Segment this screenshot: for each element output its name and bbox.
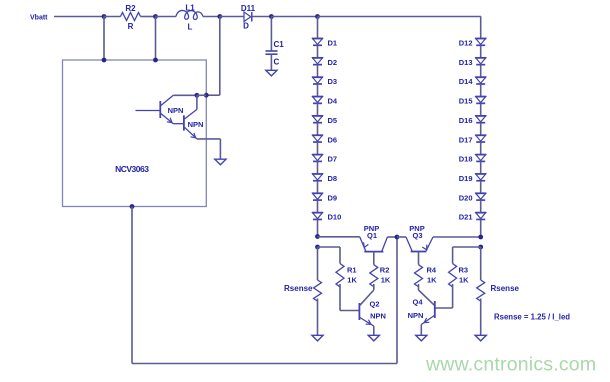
ground Q4 (416, 335, 427, 341)
LED D15 (459, 97, 486, 106)
LED D9 (312, 193, 337, 202)
wire R2 node down to IC (155, 17, 157, 61)
svg-text:D1: D1 (328, 39, 338, 48)
junction C1 node (269, 14, 274, 19)
wire (480, 45, 482, 58)
wire common node to Q3 collector (397, 236, 406, 238)
LED D12 (459, 39, 486, 48)
junction left node B (315, 245, 320, 250)
pin SWC dot (204, 93, 209, 98)
wire T2 collector up (196, 95, 198, 109)
svg-text:C: C (274, 58, 280, 67)
wire (317, 45, 319, 58)
wire (317, 65, 319, 78)
wire feedback bottom (131, 207, 133, 364)
wire L1 to switch node (203, 16, 220, 18)
wire (317, 84, 319, 97)
wire (480, 84, 482, 97)
LED D4 (312, 97, 338, 106)
transistor Q1 PNP (360, 224, 388, 252)
LED D8 (312, 174, 337, 183)
svg-text:NCV3063: NCV3063 (115, 164, 149, 174)
svg-text:D18: D18 (459, 155, 473, 164)
junction right node B (478, 245, 483, 250)
wire node A to Q1 emitter (318, 236, 360, 238)
junction common feedback node (395, 235, 400, 240)
wire D11 to C1 node (252, 16, 272, 18)
resistor Rsense left (284, 247, 321, 335)
svg-text:R4: R4 (427, 266, 437, 275)
wire (480, 200, 482, 213)
wire R1 to Q2 base (339, 284, 341, 311)
svg-text:D12: D12 (459, 39, 473, 48)
svg-text:L: L (188, 23, 193, 32)
wire switch node down (219, 17, 221, 96)
transistor internal NPN T1 (136, 95, 184, 124)
LED D10 (312, 213, 341, 222)
wire (480, 17, 482, 39)
svg-text:L1: L1 (185, 4, 195, 13)
resistor Rsense right (477, 247, 520, 335)
LED D21 (459, 213, 486, 222)
svg-text:D11: D11 (241, 4, 256, 13)
svg-text:1K: 1K (427, 276, 437, 285)
svg-text:D14: D14 (459, 77, 474, 86)
LED D7 (312, 155, 337, 164)
svg-text:NPN: NPN (188, 120, 204, 129)
wire node B to R1 (318, 246, 341, 248)
wire collectors node to SWC pin (197, 94, 206, 96)
LED D1 (312, 39, 337, 48)
svg-text:NPN: NPN (408, 311, 424, 320)
wire R2 to Q2 collector (373, 284, 375, 290)
wire Q3 emitter to right sense node (433, 236, 481, 238)
svg-text:R3: R3 (459, 266, 469, 275)
wire Q4 emitter to ground (420, 325, 422, 336)
wire right node B to R3 (453, 246, 481, 248)
wire (480, 142, 482, 155)
wire T2 emitter out (197, 138, 221, 140)
wire right string bottom (480, 219, 482, 237)
svg-text:D20: D20 (459, 193, 473, 202)
pin VCC dot (102, 58, 107, 63)
svg-text:Rsense: Rsense (284, 284, 313, 293)
svg-text:D16: D16 (459, 116, 473, 125)
svg-text:D9: D9 (328, 193, 338, 202)
wire (480, 181, 482, 194)
svg-text:D8: D8 (328, 174, 338, 183)
ground Rsense right (475, 335, 486, 341)
LED D2 (312, 58, 337, 67)
ground Q2 (368, 335, 379, 341)
svg-text:Vbatt: Vbatt (30, 15, 48, 22)
svg-text:Q3: Q3 (412, 231, 422, 240)
junction R2 right node (153, 14, 158, 19)
svg-text:R1: R1 (347, 266, 357, 275)
svg-text:D21: D21 (459, 213, 473, 222)
resistor R3 1K (449, 264, 470, 287)
op-amp U1 NCV3063 box (63, 60, 207, 207)
wire (480, 65, 482, 78)
svg-text:D10: D10 (328, 213, 342, 222)
pin Ipk dot (153, 58, 158, 63)
LED D16 (459, 116, 486, 125)
svg-text:R: R (128, 22, 134, 31)
svg-text:D2: D2 (328, 58, 338, 67)
svg-text:D: D (243, 22, 249, 31)
svg-text:D13: D13 (459, 58, 473, 67)
wire T1 collector (173, 94, 197, 96)
wire R3 to Q4 base (452, 284, 454, 308)
svg-text:Q2: Q2 (369, 299, 379, 308)
wire to SWC pin (206, 94, 220, 96)
wire Q1 collector to common node (387, 236, 397, 238)
wire (317, 161, 319, 174)
svg-text:D15: D15 (459, 97, 473, 106)
ground internal (215, 159, 226, 165)
wire left string bottom (317, 219, 319, 236)
svg-text:D4: D4 (328, 97, 338, 106)
svg-text:1K: 1K (347, 276, 357, 285)
wire (317, 142, 319, 155)
resistor R1 1K (336, 264, 357, 287)
wire (317, 17, 319, 39)
svg-text:D5: D5 (328, 116, 338, 125)
wire C1 node to left LED string (271, 16, 317, 18)
junction collectors node (195, 93, 200, 98)
svg-text:Rsense: Rsense (491, 284, 520, 293)
wire top rail Vbatt (54, 16, 104, 18)
ground C1 (266, 70, 277, 76)
wire (317, 181, 319, 194)
LED D14 (459, 77, 486, 86)
LED D5 (312, 116, 337, 125)
svg-text:www.cntronics.com: www.cntronics.com (425, 354, 596, 376)
wire Q3 base to R4 (418, 252, 420, 265)
capacitor C1 (266, 17, 285, 71)
transistor Q4 NPN (408, 297, 435, 324)
LED D20 (459, 193, 486, 202)
svg-text:1K: 1K (459, 276, 469, 285)
wire (317, 123, 319, 136)
wire (317, 200, 319, 213)
wire (480, 123, 482, 136)
wire Vbatt node down to IC (103, 17, 105, 61)
wire R2 to L1 (156, 16, 177, 18)
wire (480, 161, 482, 174)
LED D6 (312, 135, 337, 144)
svg-text:NPN: NPN (370, 312, 386, 321)
svg-text:Q4: Q4 (412, 297, 423, 306)
transistor internal NPN T2 (173, 109, 203, 139)
svg-text:R2: R2 (380, 266, 390, 275)
transistor Q3 PNP (406, 224, 433, 252)
svg-text:NPN: NPN (168, 106, 184, 115)
junction Vbatt node (102, 14, 107, 19)
svg-text:Rsense = 1.25 / I_led: Rsense = 1.25 / I_led (494, 312, 570, 321)
ground Rsense left (312, 335, 323, 341)
junction right sense node (478, 235, 483, 240)
wire top rail to right string (318, 16, 482, 18)
LED D13 (459, 58, 486, 67)
svg-text:D6: D6 (328, 135, 338, 144)
junction left sense node A (315, 234, 320, 239)
svg-text:D19: D19 (459, 174, 473, 183)
LED D17 (459, 135, 486, 144)
pin comparator dot (130, 204, 135, 209)
svg-text:Q1: Q1 (367, 231, 377, 240)
svg-text:R2: R2 (125, 4, 136, 13)
svg-text:D3: D3 (328, 77, 338, 86)
svg-text:C1: C1 (274, 40, 285, 49)
diode D11 (241, 4, 256, 31)
junction switch node (217, 14, 222, 19)
svg-text:D17: D17 (459, 135, 473, 144)
transistor Q2 NPN (359, 299, 386, 326)
LED D18 (459, 155, 486, 164)
inductor L1 (176, 4, 203, 32)
wire switch node to D11 (220, 16, 244, 18)
resistor R2 1K (mirror) (370, 265, 391, 287)
junction left string top (315, 14, 320, 19)
resistor R4 1K (415, 265, 438, 287)
wire Q2 emitter to ground (373, 326, 375, 335)
svg-text:D7: D7 (328, 155, 338, 164)
svg-text:1K: 1K (381, 276, 391, 285)
wire (480, 103, 482, 116)
LED D3 (312, 77, 337, 86)
LED D19 (459, 174, 486, 183)
wire (317, 103, 319, 116)
resistor R2 (sense) (104, 4, 156, 31)
wire Q1 base to R2 (373, 252, 375, 265)
wire R4 to Q4 collector (418, 284, 420, 290)
